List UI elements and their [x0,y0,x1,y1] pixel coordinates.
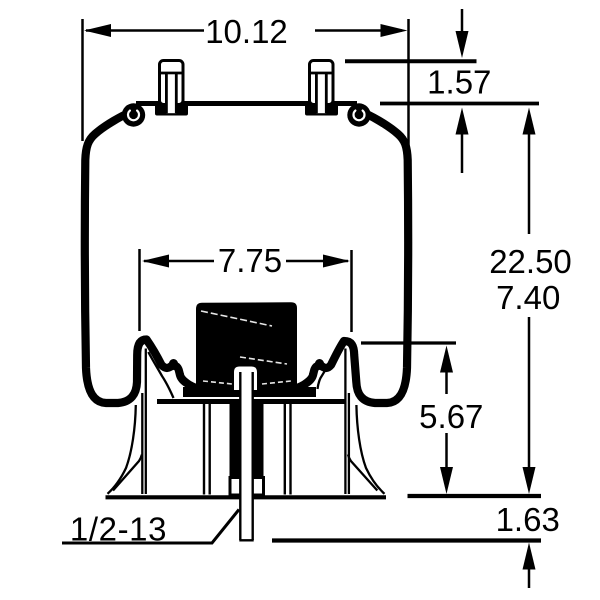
svg-text:1/2-13: 1/2-13 [70,511,167,548]
svg-text:7.75: 7.75 [218,242,282,279]
svg-text:5.67: 5.67 [419,398,483,435]
svg-text:22.50: 22.50 [489,243,572,280]
svg-text:1.57: 1.57 [427,64,491,101]
svg-text:1.63: 1.63 [496,501,560,538]
svg-text:10.12: 10.12 [205,13,288,50]
svg-text:7.40: 7.40 [496,279,560,316]
